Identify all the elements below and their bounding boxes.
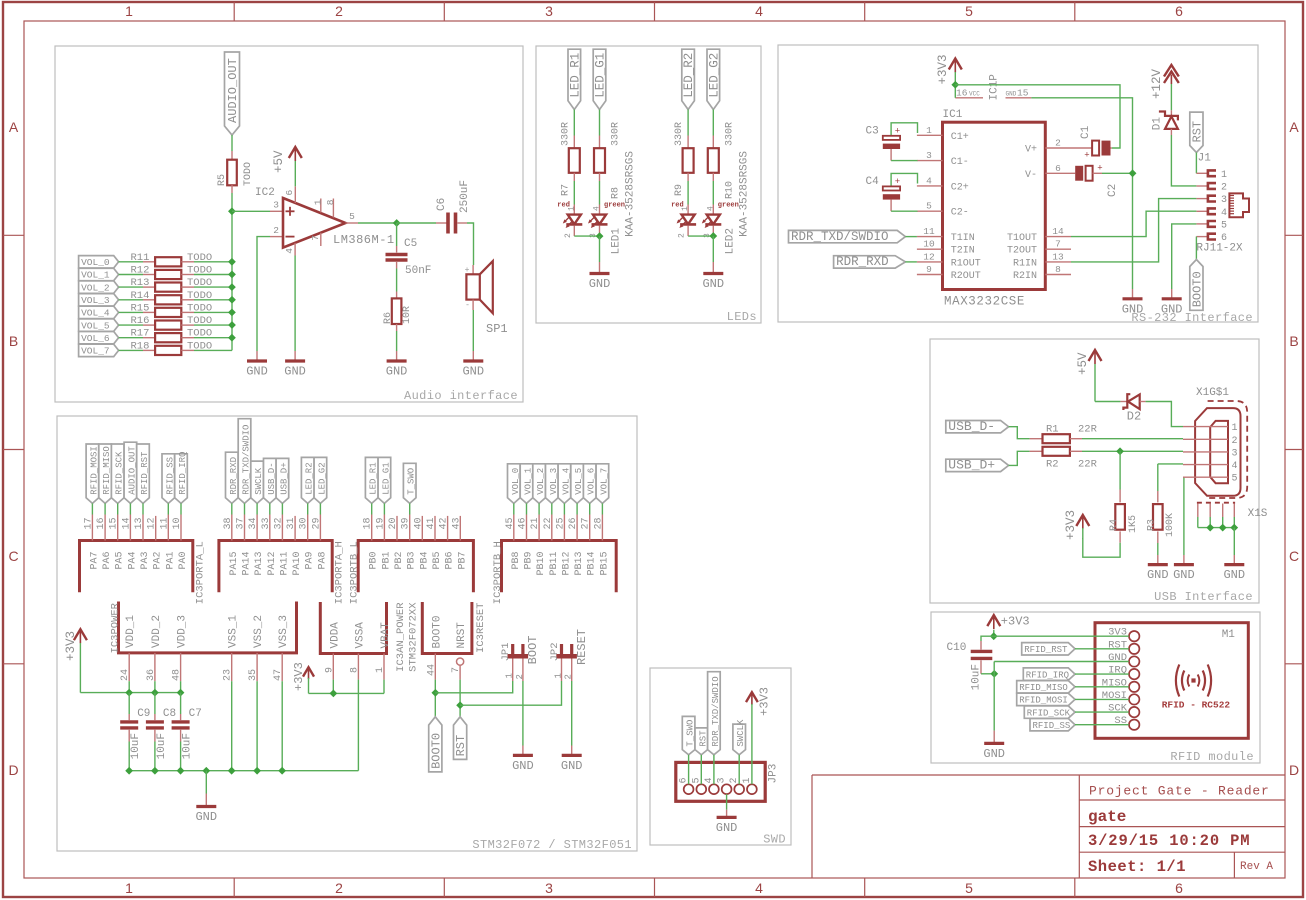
IC1 pin 5 C2- xyxy=(917,201,969,219)
junction GND bus xyxy=(151,767,159,775)
svg-text:C1: C1 xyxy=(1080,125,1092,139)
svg-text:C5: C5 xyxy=(404,238,417,250)
IC3PORTB_H pin 26 PB13 xyxy=(568,515,585,576)
svg-text:45: 45 xyxy=(505,517,516,529)
svg-text:RFID_SCK: RFID_SCK xyxy=(115,451,125,495)
svg-text:13: 13 xyxy=(134,517,145,529)
svg-text:VSS_3: VSS_3 xyxy=(278,615,290,648)
wire R5 to VOL node xyxy=(231,193,233,350)
X1G$1 pin 1 line xyxy=(1183,423,1238,434)
svg-text:+: + xyxy=(895,127,900,137)
svg-text:LED_R2: LED_R2 xyxy=(305,462,315,494)
ground GND (J1 pin5) xyxy=(1161,289,1183,316)
svg-text:2: 2 xyxy=(273,225,279,236)
svg-text:22R: 22R xyxy=(1078,424,1098,436)
net label VOL_5 (IC3PORTB_H pin 26) xyxy=(571,464,584,515)
IC3PORTA_L pin 11 PA1 xyxy=(159,515,176,570)
svg-text:T1IN: T1IN xyxy=(951,233,975,244)
wire USB_D- to R1 xyxy=(1009,427,1030,439)
wire R6 to GND xyxy=(396,331,398,351)
svg-text:LED1: LED1 xyxy=(611,228,623,255)
junction GND bus xyxy=(202,767,210,775)
net label VOL_7 (IC3PORTB_H pin 28) xyxy=(596,464,609,515)
junction VOL_1 node xyxy=(228,271,236,279)
svg-text:C3: C3 xyxy=(866,126,879,138)
svg-text:250uF: 250uF xyxy=(459,180,471,213)
net label LED_G2 xyxy=(707,49,721,109)
IC3PORTA_H pin 38 PA15 xyxy=(223,515,240,576)
svg-text:PA3: PA3 xyxy=(140,552,151,570)
capacitor C2 xyxy=(1071,164,1133,198)
diode D1 zener xyxy=(1152,110,1178,135)
wire GND15 to C2 net xyxy=(1031,98,1132,289)
junction VOL_6 node xyxy=(228,334,236,342)
svg-text:22R: 22R xyxy=(1078,459,1098,471)
junction VOL_3 node xyxy=(228,296,236,304)
svg-text:16: 16 xyxy=(956,88,968,99)
svg-text:2: 2 xyxy=(1221,183,1227,194)
IC3PORTA_H pin 32 PA11 xyxy=(273,515,290,576)
svg-text:20: 20 xyxy=(388,517,399,529)
wire BOOT0 to JP1 xyxy=(435,681,512,693)
svg-text:PB13: PB13 xyxy=(574,552,585,576)
svg-text:RFID_RST: RFID_RST xyxy=(140,451,150,495)
IC3PORTB_H pin 21 PB10 xyxy=(530,515,547,576)
wire VDD_3 to bus xyxy=(177,681,185,696)
svg-text:R12: R12 xyxy=(131,265,150,277)
IC3PORTA_H pin 31 PA10 xyxy=(286,516,303,576)
J1 pin 1 pad xyxy=(1196,170,1227,181)
svg-text:38: 38 xyxy=(223,517,234,529)
svg-text:TODO: TODO xyxy=(187,277,212,289)
junction GND bus xyxy=(253,767,261,775)
junction VOL_4 node xyxy=(228,309,236,317)
IC3PORTB_H pin 22 PB11 xyxy=(543,515,560,576)
svg-text:PA2: PA2 xyxy=(153,552,164,570)
svg-text:GND: GND xyxy=(1173,568,1195,582)
port bracket IC3PORTA_H xyxy=(219,541,332,593)
net label RDR_RXD xyxy=(834,255,917,269)
net label RFID_MISO xyxy=(1017,681,1129,693)
svg-text:1K5: 1K5 xyxy=(1128,515,1139,533)
svg-text:RESET: RESET xyxy=(575,629,589,665)
J1 pin 6 pad xyxy=(1196,233,1227,244)
wire R1 to USB pin2 xyxy=(1082,438,1183,440)
svg-text:27: 27 xyxy=(581,517,592,529)
svg-text:1: 1 xyxy=(1221,170,1227,181)
net label VOL_7 xyxy=(79,344,119,356)
J1 pin 5 pad xyxy=(1196,220,1227,231)
ground GND (LED2) xyxy=(702,262,724,291)
svg-text:BOOT0: BOOT0 xyxy=(429,733,443,769)
svg-text:+3V3: +3V3 xyxy=(1064,510,1078,540)
svg-text:PA0: PA0 xyxy=(178,552,189,570)
svg-text:PA8: PA8 xyxy=(317,552,328,570)
svg-text:R2OUT: R2OUT xyxy=(951,271,981,282)
IC3POWER pin 35 VSS_2 xyxy=(248,615,265,681)
net label VOL_1 (IC3PORTB_H pin 46) xyxy=(520,464,533,515)
net label LED_R1 xyxy=(568,49,582,109)
wire LED2 cathodes xyxy=(688,235,713,237)
svg-text:330R: 330R xyxy=(724,122,735,146)
junction GND bus xyxy=(177,767,185,775)
svg-text:LED_R1: LED_R1 xyxy=(369,462,379,494)
svg-text:PB9: PB9 xyxy=(524,552,535,570)
svg-text:4: 4 xyxy=(284,248,295,254)
junction +3V3 RFID xyxy=(990,632,998,640)
junction NRST xyxy=(456,701,464,709)
svg-text:RFID module: RFID module xyxy=(1170,750,1254,764)
wire JP3 pin3 to GND xyxy=(726,794,728,810)
svg-text:1: 1 xyxy=(125,3,133,19)
+5V supply arrow (USB) xyxy=(1076,350,1102,402)
svg-text:8: 8 xyxy=(325,199,336,205)
LEDs section box xyxy=(536,46,761,324)
port bracket IC3PORTA_L xyxy=(80,541,193,593)
svg-text:41: 41 xyxy=(426,517,437,529)
wire GND bus xyxy=(129,770,358,772)
svg-text:C2+: C2+ xyxy=(951,182,969,193)
svg-text:R10: R10 xyxy=(724,181,735,199)
svg-text:KAA-3528SRSGS: KAA-3528SRSGS xyxy=(738,151,750,237)
svg-text:24: 24 xyxy=(120,669,131,681)
svg-text:32: 32 xyxy=(273,517,284,529)
svg-text:VOL_6: VOL_6 xyxy=(81,333,110,344)
svg-text:GND: GND xyxy=(462,365,484,379)
svg-text:2: 2 xyxy=(335,880,343,896)
wire 3V3 row xyxy=(994,635,1129,637)
X1G$1 pin 5 line xyxy=(1183,474,1238,485)
net label RDR_TXD/SWDIO (IC3PORTA_H pin 37) xyxy=(238,419,251,515)
svg-text:R6: R6 xyxy=(383,312,394,324)
svg-text:PA14: PA14 xyxy=(242,552,253,576)
svg-text:PB10: PB10 xyxy=(536,552,547,576)
wire VSS_1 to gnd bus xyxy=(231,681,233,771)
svg-text:T_SWO: T_SWO xyxy=(686,720,696,747)
net label RDR_TXD/SWDIO (SWD) xyxy=(708,672,721,785)
net label USB_D- xyxy=(946,419,1009,434)
ground GND (X1S) xyxy=(1223,555,1245,582)
wire IC2 output xyxy=(358,222,397,224)
resistor R7 330R xyxy=(560,110,580,197)
svg-text:Audio interface: Audio interface xyxy=(404,389,518,403)
ground GND (IC2 pin4) xyxy=(284,351,306,379)
resistor R17 TODO xyxy=(119,328,232,343)
svg-text:VOL_2: VOL_2 xyxy=(536,468,546,495)
IC3PORTA_L pin 14 PA4 xyxy=(121,515,138,570)
svg-text:USB_D-: USB_D- xyxy=(948,419,995,434)
+12V supply arrow xyxy=(1150,65,1179,99)
svg-text:50nF: 50nF xyxy=(405,265,431,277)
svg-text:16: 16 xyxy=(96,517,107,529)
resistor R13 TODO xyxy=(119,277,232,292)
wire bus to GND xyxy=(205,771,207,794)
net label LED_G1 xyxy=(593,49,607,109)
junction C10/GND xyxy=(990,670,998,678)
+3V3 supply arrow (VDDA) xyxy=(292,662,314,693)
+3V3 supply arrow (SWD) xyxy=(746,687,772,784)
IC3PORTA_L pin 15 PA5 xyxy=(109,515,126,570)
ground GND (JP1) xyxy=(512,746,534,773)
IC3PORTB_H pin 27 PB14 xyxy=(581,515,598,576)
svg-text:SP1: SP1 xyxy=(486,322,508,336)
resistor R2 22R xyxy=(1030,447,1098,471)
svg-text:42: 42 xyxy=(439,517,450,529)
svg-text:+3V3: +3V3 xyxy=(936,54,950,84)
svg-text:PB15: PB15 xyxy=(599,552,610,576)
JP3 pin 6 pad xyxy=(679,777,694,794)
wire JP1 pin2 to GND xyxy=(522,681,524,746)
svg-text:R17: R17 xyxy=(131,328,150,340)
svg-text:PB0: PB0 xyxy=(369,552,380,570)
resistor R9 330R xyxy=(674,110,694,197)
label IC3PORTB_H xyxy=(492,541,504,604)
wire AUDIO_OUT to R5 xyxy=(231,135,233,151)
net label RST (SWD) xyxy=(695,728,708,784)
svg-text:C4: C4 xyxy=(866,176,880,188)
svg-text:10uF: 10uF xyxy=(156,733,168,759)
wire NRST to JP2 xyxy=(460,681,561,705)
svg-text:18: 18 xyxy=(363,517,374,529)
svg-text:33: 33 xyxy=(261,517,272,529)
J1 pin 4 pad xyxy=(1196,208,1227,219)
svg-text:31: 31 xyxy=(286,517,297,529)
junction VOL_2 node xyxy=(228,283,236,291)
svg-text:14: 14 xyxy=(121,517,132,529)
svg-text:GND: GND xyxy=(561,759,583,773)
net label RDR_TXD/SWDIO xyxy=(789,230,917,244)
RS-232 Interface section box xyxy=(778,45,1258,325)
svg-text:5: 5 xyxy=(926,201,932,212)
JP3 pin 4 pad xyxy=(704,777,719,794)
net label VOL_4 (IC3PORTB_H pin 25) xyxy=(558,464,571,515)
svg-text:3: 3 xyxy=(926,150,932,161)
wire NRST net xyxy=(459,680,461,717)
ground GND (SWD) xyxy=(716,810,738,835)
svg-text:MAX3232CSE: MAX3232CSE xyxy=(944,295,1025,309)
svg-text:40: 40 xyxy=(413,517,424,529)
LED LED2 green element xyxy=(702,181,739,238)
node junction at op-amp input xyxy=(228,207,236,215)
svg-text:C: C xyxy=(1289,548,1299,564)
speaker SP1 xyxy=(465,261,508,336)
svg-text:GND: GND xyxy=(1223,568,1245,582)
jumper JP2 RESET xyxy=(549,629,589,681)
svg-text:GND: GND xyxy=(512,759,534,773)
svg-text:28: 28 xyxy=(593,517,604,529)
wire IC2 pin2 to GND xyxy=(257,237,270,351)
resistor R16 TODO xyxy=(119,315,232,330)
svg-text:GND: GND xyxy=(1161,302,1183,316)
net label LED_R2 xyxy=(682,49,696,109)
svg-text:X1G$1: X1G$1 xyxy=(1196,387,1229,399)
svg-text:30: 30 xyxy=(299,517,310,529)
IC3PORTB_H pin 46 PB9 xyxy=(518,515,535,570)
svg-text:VOL_0: VOL_0 xyxy=(511,468,521,495)
svg-text:USB_D+: USB_D+ xyxy=(279,462,289,494)
USB shield X1S xyxy=(1197,503,1268,555)
svg-text:R8: R8 xyxy=(611,187,622,199)
svg-text:2: 2 xyxy=(564,233,573,238)
IC3RESET pin 7 NRST xyxy=(451,622,468,680)
svg-text:GND: GND xyxy=(386,365,408,379)
svg-text:PA15: PA15 xyxy=(229,552,240,576)
svg-text:4: 4 xyxy=(706,206,715,211)
svg-text:+: + xyxy=(1097,164,1102,174)
svg-text:PA9: PA9 xyxy=(305,552,316,570)
LED LED1 green element xyxy=(588,181,625,238)
J1 pin 3 pad xyxy=(1196,195,1227,206)
wire GND net RFID xyxy=(993,662,995,731)
svg-text:9: 9 xyxy=(324,667,335,673)
svg-text:STM32F072XX: STM32F072XX xyxy=(407,602,419,672)
wire D2 to USB pin1 xyxy=(1146,402,1183,427)
svg-text:+: + xyxy=(1084,151,1089,161)
IC3AN_POWER pin 8 VSSA xyxy=(349,622,366,680)
wire JP2 pin2 to GND xyxy=(571,681,573,746)
svg-text:T2OUT: T2OUT xyxy=(1007,246,1037,257)
IC3PORTB_H pin 45 PB8 xyxy=(505,515,522,570)
net label AUDIO_OUT (IC3PORTA_L pin 14) xyxy=(124,442,137,514)
svg-text:D1: D1 xyxy=(1152,117,1164,131)
svg-text:LED_G2: LED_G2 xyxy=(707,53,721,98)
svg-text:PB14: PB14 xyxy=(587,552,598,576)
junction GND bus xyxy=(228,767,236,775)
net label RDR_RXD (IC3PORTA_H pin 38) xyxy=(226,452,239,514)
svg-text:RS-232 Interface: RS-232 Interface xyxy=(1131,311,1253,325)
svg-text:+3V3: +3V3 xyxy=(758,687,772,716)
svg-text:10uF: 10uF xyxy=(182,733,194,759)
IC3POWER pin 47 VSS_3 xyxy=(273,615,290,681)
svg-text:NRST: NRST xyxy=(456,622,468,649)
svg-text:VOL_1: VOL_1 xyxy=(81,270,110,281)
net label VOL_0 (IC3PORTB_H pin 45) xyxy=(508,464,521,515)
svg-text:C10: C10 xyxy=(947,642,967,654)
svg-text:IC3AN_POWER: IC3AN_POWER xyxy=(395,602,407,672)
net label RFID_SCK xyxy=(1024,706,1129,718)
svg-text:36: 36 xyxy=(146,669,157,681)
svg-text:7: 7 xyxy=(451,667,462,673)
net label VOL_2 xyxy=(79,281,119,293)
svg-text:6: 6 xyxy=(1221,233,1227,244)
svg-text:11: 11 xyxy=(923,226,935,237)
ground GND (IC2 pin2) xyxy=(246,351,268,379)
svg-text:8: 8 xyxy=(1055,264,1061,275)
IC3PORTB_L pin 19 PB1 xyxy=(375,515,392,570)
svg-text:LED_G1: LED_G1 xyxy=(594,53,608,98)
IC3PORTB_L pin 18 PB0 xyxy=(363,515,380,570)
resistor R5 TODO xyxy=(217,151,254,193)
svg-text:6: 6 xyxy=(1175,880,1183,896)
resistor R6 10R xyxy=(383,292,413,332)
wire VSSA to GND bus xyxy=(357,680,359,771)
svg-text:D2: D2 xyxy=(1127,410,1141,424)
wire LED1 cathodes xyxy=(574,235,599,237)
svg-text:X1S: X1S xyxy=(1248,508,1268,520)
svg-text:1: 1 xyxy=(125,880,133,896)
svg-text:5: 5 xyxy=(349,211,355,222)
IC3PORTB_H pin 25 PB12 xyxy=(555,515,572,576)
svg-text:37: 37 xyxy=(236,517,247,529)
svg-text:RST: RST xyxy=(454,735,468,757)
svg-text:IC3POWER: IC3POWER xyxy=(110,602,122,653)
svg-text:C2-: C2- xyxy=(951,208,969,219)
svg-text:SWCLK: SWCLK xyxy=(254,467,264,495)
svg-text:6: 6 xyxy=(1055,163,1061,174)
svg-text:R1OUT: R1OUT xyxy=(951,258,981,269)
svg-text:R14: R14 xyxy=(131,290,150,302)
wire BOOT0 net xyxy=(434,680,436,717)
capacitor C7 10uF xyxy=(172,693,202,771)
wire USB_D+ to R2 xyxy=(1009,451,1030,465)
svg-text:Sheet: 1/1: Sheet: 1/1 xyxy=(1088,858,1186,876)
capacitor C8 10uF xyxy=(146,693,176,771)
connector JP3 body xyxy=(676,762,780,801)
label IC1P xyxy=(989,74,1001,101)
resistor R18 TODO xyxy=(119,340,232,355)
svg-text:VSS_2: VSS_2 xyxy=(253,615,265,648)
wire +12V to D1 xyxy=(1170,84,1172,110)
node junction at C5/C6 xyxy=(393,219,401,227)
svg-text:+: + xyxy=(465,266,470,275)
IC3PORTA_L pin 17 PA7 xyxy=(83,515,100,570)
svg-text:4: 4 xyxy=(1221,208,1227,219)
svg-text:23: 23 xyxy=(223,669,234,681)
net label BOOT0 (RS-232) xyxy=(1190,260,1205,311)
jumper JP1 BOOT xyxy=(500,636,540,682)
+3V3 supply arrow (STM32 VDD) xyxy=(64,629,87,692)
IC1 pin 7 T2OUT xyxy=(1007,239,1071,257)
svg-text:VOL_0: VOL_0 xyxy=(81,257,110,268)
svg-text:VOL_7: VOL_7 xyxy=(81,346,110,357)
svg-text:6: 6 xyxy=(1175,3,1183,19)
+3V3 supply arrow (RS-232) xyxy=(936,54,962,97)
svg-text:PB11: PB11 xyxy=(549,552,560,576)
svg-text:STM32F072 / STM32F051: STM32F072 / STM32F051 xyxy=(472,838,632,852)
label IC3PORTA_H xyxy=(334,541,346,604)
svg-text:C2: C2 xyxy=(1107,184,1119,197)
svg-text:6: 6 xyxy=(284,190,295,196)
IC IC1 MAX3232CSE body xyxy=(943,109,1046,309)
svg-text:green: green xyxy=(718,202,739,210)
svg-text:10uF: 10uF xyxy=(971,664,983,690)
wire VSS_2 to gnd bus xyxy=(256,681,258,771)
svg-text:BOOT0: BOOT0 xyxy=(1190,271,1204,307)
svg-text:100K: 100K xyxy=(1165,513,1176,537)
svg-text:26: 26 xyxy=(568,517,579,529)
IC3PORTB_L pin 39 PB3 xyxy=(401,515,418,570)
ground GND (SP1) xyxy=(462,351,484,379)
svg-text:PA6: PA6 xyxy=(102,552,113,570)
junction VOL_5 node xyxy=(228,321,236,329)
net label VOL_6 (IC3PORTB_H pin 27) xyxy=(583,464,596,515)
svg-text:RFID_MOSI: RFID_MOSI xyxy=(89,446,99,495)
svg-text:+3V3: +3V3 xyxy=(1001,615,1030,629)
svg-text:8: 8 xyxy=(349,667,360,673)
junction VOL_0 node xyxy=(228,258,236,266)
wire RST to J1 pin1 xyxy=(1195,153,1197,174)
net label RFID_IRQ (IC3PORTA_L pin 10) xyxy=(175,452,188,515)
wire R3 to GND xyxy=(1157,543,1159,555)
+3V3 supply arrow (RFID) xyxy=(987,615,1029,637)
capacitor C10 10uF xyxy=(947,636,995,690)
svg-text:VOL_6: VOL_6 xyxy=(587,468,597,495)
svg-text:LED_R2: LED_R2 xyxy=(682,53,696,98)
svg-text:TODO: TODO xyxy=(187,315,212,327)
svg-text:A: A xyxy=(9,119,19,135)
X1G$1 pin 4 line xyxy=(1183,461,1238,472)
net label RST (RS-232) xyxy=(1190,112,1205,152)
